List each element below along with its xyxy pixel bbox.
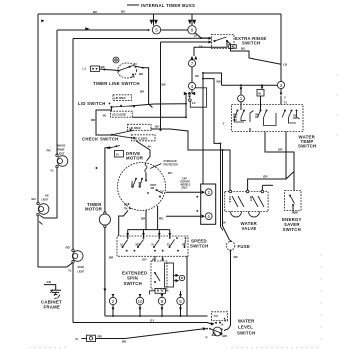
timer contact 2 bottom bbox=[109, 297, 116, 304]
timer contact 10 bottom bbox=[136, 297, 143, 304]
svg-text:BU: BU bbox=[155, 125, 159, 129]
svg-text:SWITCH: SWITCH bbox=[190, 243, 208, 248]
speed switch dashed box bbox=[117, 236, 188, 256]
svg-text:6: 6 bbox=[179, 299, 182, 304]
wire between circle5 and circle9 bbox=[161, 29, 188, 31]
svg-text:SOAK: SOAK bbox=[78, 266, 85, 269]
timer contact 5 bbox=[152, 26, 160, 34]
wire arrow stem above circle9 bbox=[191, 14, 193, 25]
wire V203 down to cap box bbox=[202, 73, 204, 184]
water valve dashed box bbox=[225, 192, 268, 212]
timer contact 1 bbox=[238, 95, 245, 102]
valve terminals bbox=[229, 190, 232, 193]
extended spin solid box bbox=[165, 263, 174, 287]
svg-text:LIGHT: LIGHT bbox=[58, 154, 65, 156]
svg-text:LIGHT: LIGHT bbox=[78, 271, 85, 273]
svg-text:YL: YL bbox=[50, 169, 54, 173]
wire extra rinse to circle7 bbox=[194, 41, 227, 56]
water level switch dashed box bbox=[212, 312, 228, 321]
svg-text:LIGHT: LIGHT bbox=[42, 200, 49, 202]
svg-text:9: 9 bbox=[191, 28, 194, 33]
drive motor winding dots bbox=[132, 186, 134, 188]
extra rinse switch dashed box bbox=[212, 35, 235, 49]
svg-text:BU: BU bbox=[168, 171, 172, 175]
arrowhead pair above circle5 bbox=[150, 20, 154, 25]
wash rinse light bbox=[57, 156, 68, 167]
svg-text:TM: TM bbox=[124, 209, 127, 211]
svg-text:P: P bbox=[206, 336, 208, 340]
svg-text:FUSE: FUSE bbox=[238, 244, 250, 249]
stubs above bottom circles bbox=[112, 294, 114, 297]
svg-text:LEVEL: LEVEL bbox=[238, 325, 253, 330]
cam contacts bbox=[117, 70, 119, 72]
stubs below bottom circles with arrows bbox=[112, 305, 114, 316]
water temp switch dashed box bbox=[232, 105, 304, 132]
svg-text:SPIN: SPIN bbox=[127, 276, 138, 281]
lid open dashed box lid switch bbox=[113, 95, 132, 101]
svg-text:5M: 5M bbox=[124, 205, 127, 207]
svg-text:COLD: COLD bbox=[228, 196, 230, 203]
timer contact 3 bbox=[277, 81, 284, 88]
arrowhead timer motor wire top bbox=[109, 146, 112, 149]
arrowheads above bottom circles bbox=[112, 294, 115, 297]
wire circle7 to circle4 bbox=[191, 67, 193, 82]
wire check out extension to valve bbox=[223, 150, 231, 190]
arrow on second bus bbox=[85, 27, 90, 30]
svg-text:BU: BU bbox=[32, 197, 36, 201]
wire left border down to ON light bbox=[37, 14, 39, 204]
check switch lower contact pair bbox=[107, 146, 120, 149]
connector box above circle8 bbox=[155, 289, 166, 294]
wire motor right to cap box bbox=[166, 191, 201, 193]
wire water temp out 1 bbox=[249, 128, 251, 132]
overload protector squiggle bbox=[145, 163, 147, 173]
triangle symbol bbox=[212, 332, 216, 336]
svg-text:HI: HI bbox=[152, 245, 155, 247]
bottom bus 2 bbox=[73, 323, 213, 325]
wire water temp out bottom left bbox=[265, 132, 294, 191]
water temp contacts cluster 2 bbox=[260, 110, 262, 112]
wire check closed to motor bbox=[136, 141, 150, 161]
timer contact 6 bottom bbox=[177, 297, 184, 304]
valve coil diagonals bbox=[232, 196, 238, 207]
svg-text:SWITCH: SWITCH bbox=[237, 331, 255, 336]
wire lid switch output bbox=[130, 104, 186, 106]
arrowheads above circle7 bbox=[191, 56, 194, 60]
svg-text:PU: PU bbox=[132, 77, 136, 79]
svg-text:TU1: TU1 bbox=[214, 316, 219, 318]
speed switch top edge dots bbox=[127, 237, 129, 239]
junction dot lower bbox=[185, 116, 187, 118]
energy saver switch dashed box bbox=[285, 191, 302, 211]
svg-text:H6: H6 bbox=[195, 74, 199, 78]
arrow drop bus 1 bbox=[240, 88, 243, 91]
wire drop from lower feed bbox=[160, 42, 162, 131]
extra rinse contacts bbox=[213, 40, 215, 42]
svg-text:SWITCH: SWITCH bbox=[283, 227, 301, 232]
svg-text:TIMER LINE SWITCH: TIMER LINE SWITCH bbox=[93, 81, 140, 86]
wire arrow stem above circle5 bbox=[153, 14, 155, 26]
timer contact 8 bottom bbox=[158, 297, 165, 304]
motor bottom contacts bbox=[128, 203, 130, 205]
arrow below circle3 bbox=[280, 93, 283, 96]
svg-text:8: 8 bbox=[161, 299, 164, 304]
svg-text:10: 10 bbox=[138, 299, 143, 304]
lid closed dashed box lid switch bbox=[111, 111, 133, 117]
water temp contacts cluster 3 bbox=[284, 110, 286, 112]
timer contact 2 in box bbox=[205, 189, 212, 196]
svg-text:LO: LO bbox=[120, 245, 123, 247]
water temp contacts cluster 1 bbox=[237, 110, 239, 112]
wire drop to circle1 bbox=[240, 85, 242, 95]
wire N1 drop bbox=[261, 85, 263, 89]
wire circle1 into box bbox=[240, 102, 242, 110]
fuse dashed circle bbox=[226, 242, 235, 251]
lid closed dashed box check switch bbox=[132, 135, 156, 141]
wire lower feed to extra rinse bbox=[161, 41, 209, 43]
soak light bbox=[72, 251, 83, 262]
wire below circle4 bbox=[191, 90, 193, 94]
wire lid closed output bbox=[132, 116, 186, 118]
svg-text:WATER: WATER bbox=[238, 319, 255, 324]
water level switch circle bbox=[213, 327, 222, 336]
timer contact 6 in box bbox=[205, 213, 212, 220]
timer line switch cam dashed ellipse bbox=[118, 63, 137, 78]
svg-text:GY: GY bbox=[150, 319, 154, 323]
motor internal contacts bbox=[135, 178, 137, 180]
corner arrow top left border bbox=[41, 20, 45, 23]
svg-text:2: 2 bbox=[112, 299, 115, 304]
small loop wire right of circle4 bbox=[190, 88, 206, 107]
scan artifact dotted horizontal bottom bbox=[29, 347, 317, 348]
arrow lower feed extra rinse bbox=[209, 41, 213, 44]
arrowhead on timer motor wire bbox=[104, 289, 107, 293]
svg-text:MODELS: MODELS bbox=[181, 185, 191, 187]
arrowhead blob below circle4 bbox=[188, 92, 191, 95]
neutral connector box bbox=[87, 335, 96, 341]
svg-text:RG: RG bbox=[182, 245, 186, 247]
drive motor dashed circle bbox=[118, 163, 166, 211]
svg-text:START: START bbox=[130, 181, 133, 189]
arrow into extra rinse common bbox=[209, 37, 213, 40]
svg-text:CHECK SWITCH: CHECK SWITCH bbox=[82, 137, 118, 142]
svg-text:GN: GN bbox=[47, 280, 52, 284]
svg-text:NO: NO bbox=[103, 115, 107, 117]
svg-text:SWITCH: SWITCH bbox=[242, 40, 260, 45]
wire below soak light to bottom bus bbox=[72, 262, 74, 323]
arrows into cap box bbox=[202, 191, 206, 195]
svg-text:LID CLOSED: LID CLOSED bbox=[112, 115, 126, 117]
legend line internal timer buss bbox=[127, 4, 139, 6]
wire right border circle3 to water temp box bbox=[280, 89, 282, 95]
arrowhead pair above circle9 bbox=[188, 20, 192, 25]
timer contact 8 timer line switch bbox=[113, 57, 119, 63]
svg-text:INTERNAL TIMER BUSS: INTERNAL TIMER BUSS bbox=[141, 3, 195, 8]
wire second bus left drop bbox=[56, 30, 58, 155]
junction dot lid wire bbox=[185, 103, 187, 105]
svg-text:Y: Y bbox=[223, 122, 225, 126]
svg-text:3: 3 bbox=[280, 83, 283, 88]
svg-text:BU: BU bbox=[134, 64, 138, 66]
pointer line overload bbox=[150, 164, 162, 169]
svg-text:BU: BU bbox=[93, 10, 97, 14]
wire L1 to timer line switch bbox=[100, 69, 119, 71]
svg-text:MED: MED bbox=[136, 245, 141, 247]
svg-text:CENT: CENT bbox=[150, 185, 157, 187]
svg-text:ON: ON bbox=[45, 196, 49, 198]
svg-text:MOTOR: MOTOR bbox=[85, 207, 103, 212]
svg-text:SWITCH: SWITCH bbox=[124, 281, 142, 286]
wire twin drop to fuse bbox=[223, 150, 230, 240]
black blob contact bbox=[220, 332, 223, 335]
svg-text:ONLY: ONLY bbox=[182, 188, 189, 190]
circled terminal right of ext spin bbox=[179, 275, 184, 280]
lid switch contacts bbox=[110, 106, 112, 108]
wire water temp out bottom right bbox=[248, 132, 286, 192]
ground cabinet frame bbox=[44, 285, 56, 290]
wire timer motor vertical bbox=[104, 148, 106, 212]
wire motor left bottom exit bbox=[119, 211, 128, 237]
wire C-link lid to check switch bbox=[96, 108, 112, 136]
wire into water temp box top bbox=[280, 96, 282, 105]
connector box L1 bbox=[91, 66, 100, 71]
timer contact 4 bbox=[188, 82, 195, 89]
wire neutral to water level bbox=[96, 329, 206, 339]
svg-text:7: 7 bbox=[191, 61, 194, 66]
bottom bus 1 bbox=[105, 315, 208, 317]
wire timer line switch output bbox=[134, 66, 153, 108]
motor centrifugal contacts bbox=[156, 189, 158, 191]
svg-text:GY: GY bbox=[224, 319, 228, 323]
drive motor label box 04 bbox=[115, 151, 124, 158]
wire second bus top bbox=[57, 29, 149, 31]
timer motor bbox=[99, 214, 110, 225]
junction dot circle5 feed bbox=[148, 29, 150, 31]
junction dot bbox=[200, 37, 202, 39]
lid open dashed box check switch bbox=[128, 124, 152, 130]
drops into speed switch bbox=[127, 230, 129, 238]
svg-text:CR: CR bbox=[255, 117, 259, 119]
svg-text:VALVE: VALVE bbox=[242, 226, 257, 231]
svg-text:LID SWITCH: LID SWITCH bbox=[78, 101, 106, 106]
speed switch top feed bbox=[128, 229, 170, 231]
svg-text:PROTECTOR: PROTECTOR bbox=[164, 164, 179, 166]
capacitor box bbox=[201, 184, 216, 224]
check switch contacts bbox=[111, 134, 113, 136]
svg-text:EXPORT: EXPORT bbox=[181, 182, 191, 184]
wire second bus below wash light bbox=[40, 167, 57, 218]
nested corner wire around water temp bbox=[203, 73, 222, 85]
svg-text:N: N bbox=[76, 337, 78, 341]
wire drops below speed box bbox=[154, 256, 156, 261]
timer contact 9 bbox=[188, 26, 196, 34]
svg-text:OVERLOAD: OVERLOAD bbox=[164, 160, 177, 163]
speed switch contacts bbox=[123, 240, 186, 248]
svg-text:10: 10 bbox=[194, 34, 198, 38]
svg-text:RINSE: RINSE bbox=[58, 149, 65, 151]
valve coil bumps bbox=[231, 212, 242, 218]
nested corner 2 bbox=[203, 79, 221, 226]
wire motor bottom exits to speed switch bbox=[145, 211, 147, 230]
svg-text:YL: YL bbox=[68, 269, 72, 273]
wire circle9 to extra rinse bbox=[195, 33, 211, 39]
N1 connector box bbox=[257, 90, 264, 97]
svg-text:L1: L1 bbox=[83, 67, 87, 71]
svg-text:FRAME: FRAME bbox=[44, 305, 61, 310]
svg-text:CAP: CAP bbox=[182, 178, 187, 181]
wire third bus top bbox=[73, 37, 209, 39]
svg-text:5: 5 bbox=[155, 28, 158, 33]
wire diagonal to energy saver feed bbox=[286, 172, 294, 180]
svg-text:BU: BU bbox=[121, 10, 125, 14]
svg-text:MOTOR: MOTOR bbox=[126, 156, 144, 161]
svg-text:WASH/: WASH/ bbox=[58, 144, 66, 147]
ON light bbox=[38, 204, 49, 215]
wire third bus left drop bbox=[72, 39, 74, 251]
svg-text:LID OPEN: LID OPEN bbox=[115, 98, 126, 100]
svg-text:Y: Y bbox=[284, 96, 286, 100]
scan artifact dotted vertical right bbox=[320, 74, 337, 339]
wire energy saver bottom stub bbox=[292, 205, 294, 214]
dots left of cap box bbox=[196, 196, 198, 198]
water temp internal wires bbox=[235, 118, 245, 123]
timer contact 7 bbox=[188, 60, 195, 67]
wire stub valve third terminal bbox=[261, 185, 263, 191]
svg-text:SWITCH: SWITCH bbox=[298, 143, 316, 148]
wire left border below ON light bbox=[38, 215, 73, 267]
extended spin switch dashed box bbox=[151, 261, 167, 289]
svg-text:BU: BU bbox=[241, 47, 245, 51]
junction dots nested corners bbox=[202, 72, 204, 74]
water level contacts bbox=[215, 322, 217, 324]
wire L1 top border bus bbox=[38, 13, 281, 15]
connector box on BU wire bbox=[229, 45, 237, 49]
svg-text:4: 4 bbox=[191, 84, 194, 89]
wire protector into motor bbox=[145, 173, 147, 181]
wire check open output bbox=[151, 129, 223, 150]
junction dot stray bbox=[96, 167, 98, 169]
svg-text:T1: T1 bbox=[284, 101, 288, 105]
svg-text:HOT: HOT bbox=[249, 196, 251, 201]
svg-text:LID CLOSED: LID CLOSED bbox=[134, 138, 148, 140]
svg-text:GY: GY bbox=[160, 190, 164, 194]
wire fuse down to water level bbox=[224, 251, 231, 331]
wire right border down to circle3 bbox=[280, 14, 282, 81]
water temp top bus bbox=[222, 84, 278, 86]
svg-text:EX: EX bbox=[167, 245, 171, 247]
speed bottom dots bbox=[126, 250, 128, 252]
svg-text:2O4: 2O4 bbox=[142, 259, 147, 262]
wire extra rinse to BU diagonal bbox=[227, 41, 281, 64]
svg-text:1A: 1A bbox=[221, 323, 224, 326]
wire speed box right drop bbox=[186, 256, 188, 316]
